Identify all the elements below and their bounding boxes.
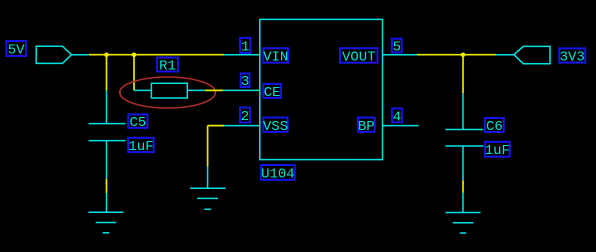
node junction B <box>132 53 137 58</box>
svg-text:R1: R1 <box>159 58 176 74</box>
svg-text:U104: U104 <box>261 167 295 183</box>
wire C6 to ground <box>462 180 464 192</box>
wire net 5V top <box>89 54 224 56</box>
pin name BP <box>358 118 375 135</box>
port 3V3 <box>496 46 550 63</box>
wire R1 to CE <box>205 89 223 91</box>
ground under C5 <box>89 193 124 233</box>
label U104 <box>261 165 295 183</box>
svg-text:5: 5 <box>393 40 401 56</box>
label 5V <box>7 41 27 59</box>
resistor R1 <box>134 83 205 98</box>
port 5V <box>36 46 89 63</box>
svg-text:VSS: VSS <box>263 119 288 135</box>
node junction A <box>104 53 109 58</box>
svg-text:BP: BP <box>358 119 375 135</box>
svg-text:VIN: VIN <box>263 50 288 66</box>
wire junction A to C5 <box>106 55 108 91</box>
svg-text:1: 1 <box>241 40 249 56</box>
pin name VOUT <box>340 48 378 65</box>
pin number 5 <box>392 39 402 56</box>
wire C5 to ground <box>106 179 108 193</box>
wire junction B to R1 <box>133 55 135 91</box>
pin number 4 <box>392 108 402 125</box>
ground under VSS <box>190 167 226 210</box>
capacitor C6 <box>445 93 483 180</box>
pin number 2 <box>240 108 250 126</box>
label 1uF (C6) <box>485 142 510 159</box>
label C6 <box>485 118 504 135</box>
svg-text:VOUT: VOUT <box>342 50 376 66</box>
wire CE pin lead <box>223 89 260 91</box>
label R1 <box>157 58 178 75</box>
svg-text:C6: C6 <box>486 119 503 135</box>
wire BP pin stub <box>383 125 419 127</box>
svg-text:CE: CE <box>264 85 281 101</box>
label 3V3 <box>559 48 585 65</box>
wire VSS pin lead <box>224 125 260 127</box>
label 1uF (C5) <box>128 138 153 155</box>
pin name VSS <box>263 118 288 135</box>
highlight ellipse around R1 <box>120 77 216 108</box>
pin name CE <box>263 84 281 101</box>
pin number 3 <box>241 74 250 91</box>
svg-text:1uF: 1uF <box>128 139 153 155</box>
pin number 1 <box>240 38 250 56</box>
wire VSS to ground <box>208 126 224 167</box>
pin name VIN <box>263 48 288 65</box>
svg-text:2: 2 <box>241 109 249 125</box>
capacitor C5 <box>89 91 126 179</box>
wire junction C to C6 <box>462 55 464 94</box>
op-amp U104 body <box>260 19 383 159</box>
wire VOUT pin lead <box>383 54 418 56</box>
wire VIN pin lead <box>224 54 260 56</box>
wire net 3V3 <box>417 54 496 56</box>
svg-text:4: 4 <box>393 109 401 125</box>
svg-text:1uF: 1uF <box>485 143 510 159</box>
svg-text:3V3: 3V3 <box>560 50 585 66</box>
svg-text:5V: 5V <box>8 43 25 59</box>
ground under C6 <box>446 193 481 234</box>
node junction C <box>461 53 466 58</box>
label C5 <box>128 114 147 131</box>
svg-text:C5: C5 <box>129 115 146 131</box>
svg-text:3: 3 <box>241 74 249 90</box>
